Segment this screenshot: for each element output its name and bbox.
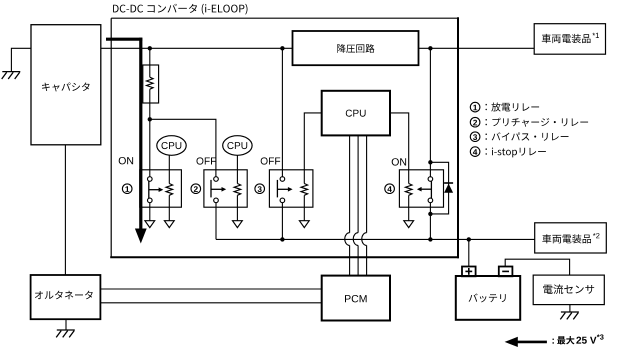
lower bus wire to vehicle accessories *2 <box>216 238 535 240</box>
wire main bus from step-down circuit to vehicle accessories *1 <box>419 47 535 49</box>
relay K3 bypass relay box <box>269 170 313 207</box>
wire CPU to PCM #2 (with crossover hop) <box>353 135 358 275</box>
resistor (precharge, boxed) <box>143 65 159 103</box>
battery negative terminal <box>499 267 513 277</box>
diode branch wire (flyback) <box>430 162 448 214</box>
junction node relay K4 / diode top <box>428 160 432 164</box>
main CPU box <box>322 91 390 136</box>
label ON (relay 1) <box>119 157 133 164</box>
relay K4 contact pin (top) <box>428 177 433 182</box>
alternator box オルタネータ <box>31 275 101 319</box>
wire CPU to PCM #1 (with crossover hop) <box>345 135 350 275</box>
circled number 2 <box>191 184 201 194</box>
wire alternator to chassis ground <box>65 319 67 330</box>
junction node relay K4 / diode bottom <box>428 212 432 216</box>
battery positive terminal <box>462 267 476 277</box>
wire CPU to relay K4 coil <box>390 113 409 184</box>
wire battery positive to lower bus <box>468 239 470 266</box>
legend line 1: discharge relay <box>470 102 539 112</box>
ground arrow (relay K1 coil) <box>164 221 174 228</box>
ground (current sensor) <box>560 312 579 319</box>
wire CPU to relay K3 coil <box>304 113 321 184</box>
wire capacitor to chassis ground <box>11 48 31 71</box>
junction node bus/precharge-resistor <box>148 46 152 50</box>
wire relay K3 contact to lower bus <box>281 203 283 240</box>
wire alternator to PCM (upper) <box>100 288 321 290</box>
junction node bus/bypass-relay <box>280 46 284 50</box>
battery box バッテリ <box>456 276 520 320</box>
junction node bus/i-stop-relay <box>428 46 432 50</box>
wire CPU driver to relay K1 coil <box>168 155 170 183</box>
label: DC-DC コンバータ (i-ELOOP) <box>113 4 247 15</box>
ground (capacitor) <box>2 72 21 79</box>
vehicle accessories box 車両電装品*1 <box>534 24 605 55</box>
circled number 3 <box>255 184 265 194</box>
relay K2 moving contact (open) with arrow <box>211 180 226 198</box>
arrowhead of thick line <box>135 229 147 244</box>
wire bus to relay K3 contact <box>281 48 283 177</box>
wire junction to relay 2 contact <box>150 119 216 177</box>
relay K4 coil (resistor) <box>405 184 412 196</box>
note arrow: max 25 V direction <box>505 337 547 347</box>
circled number 4 <box>385 184 395 194</box>
junction node resistor/relay1/relay2 <box>148 117 152 121</box>
relay K3 contact pin (top) <box>280 177 285 182</box>
thick capacitor output line (bold wire) <box>106 38 142 229</box>
relay K2 coil (resistor) <box>234 184 241 196</box>
step-down circuit box 降圧回路 <box>293 31 419 65</box>
wire relay K1 contact to ground arrow <box>149 203 151 221</box>
wire relay K2 coil to ground arrow <box>236 195 238 221</box>
label OFF (relay 3) <box>261 157 281 164</box>
wire CPU driver to relay K2 coil <box>236 155 238 183</box>
relay K1 contact pin (bottom) <box>148 198 153 203</box>
circled number 1 <box>122 184 132 194</box>
label OFF (relay 2) <box>197 157 217 164</box>
relay K1 coil (resistor) <box>166 184 173 196</box>
wire CPU to PCM #3 (with crossover hop) <box>362 135 367 275</box>
wire resistor to relay 1 contact <box>149 89 151 177</box>
relay K1 discharge relay box <box>140 170 182 207</box>
relay K2 contact pin (top) <box>214 177 219 182</box>
relay K1 moving contact (closed) with arrow <box>149 181 164 198</box>
relay K1 contact pin (top) <box>148 177 153 182</box>
wire battery negative to current sensor <box>505 259 569 275</box>
junction node battery / lower bus <box>467 237 471 241</box>
wire relay K4 contact to lower bus <box>429 203 431 240</box>
ground arrow (relay K3 coil) <box>299 221 309 228</box>
wire current sensor to chassis ground <box>569 305 571 312</box>
label ON (relay 4) <box>392 158 406 165</box>
wire relay K2 contact to lower bus <box>215 203 217 240</box>
relay K4 moving contact (closed) with arrow <box>417 181 432 198</box>
diode (flyback) symbol <box>444 183 453 193</box>
PCM box <box>322 276 390 321</box>
relay K4 contact pin (bottom) <box>428 198 433 203</box>
wire alternator to PCM (lower) <box>100 302 321 304</box>
ground arrow (relay K4 coil) <box>404 221 414 228</box>
wire capacitor to alternator <box>64 145 66 275</box>
wire relay K3 coil to ground arrow <box>303 195 305 221</box>
junction node relay K4 / lower bus <box>428 237 432 241</box>
ground arrow (relay K1 contact) <box>145 221 155 228</box>
relay K2 contact pin (bottom) <box>214 198 219 203</box>
wire bus down into precharge resistor <box>149 48 151 77</box>
outer enclosure DC-DC converter unit box <box>110 17 459 258</box>
wire bus to relay K4 contact <box>429 48 431 177</box>
relay K3 coil (resistor) <box>301 184 308 196</box>
CPU driver oval (relay 2) <box>223 136 252 156</box>
legend line 3: bypass relay <box>470 132 568 142</box>
relay K3 moving contact (open) with arrow <box>277 180 292 198</box>
junction node relay K3 / lower bus <box>280 237 284 241</box>
legend line 4: i-stop relay <box>470 147 546 158</box>
ground (alternator) <box>56 330 75 337</box>
CPU driver oval (relay 1) <box>157 136 186 156</box>
wire main bus from capacitor to step-down circuit <box>101 47 293 49</box>
label: 最大 25 V *3 <box>553 334 604 344</box>
ground arrow (relay K2 coil) <box>233 221 243 228</box>
relay K2 precharge relay box <box>204 170 247 207</box>
wire relay K1 coil to ground arrow <box>168 195 170 221</box>
current sensor box 電流センサ <box>533 275 604 305</box>
capacitor unit box キャパシタ <box>31 25 101 145</box>
wire relay K4 coil to ground arrow <box>408 195 410 221</box>
vehicle accessories box 車両電装品*2 <box>535 223 607 253</box>
legend line 2: precharge relay <box>470 117 588 127</box>
relay K4 i-stop relay box <box>399 170 443 207</box>
relay K3 contact pin (bottom) <box>280 198 285 203</box>
